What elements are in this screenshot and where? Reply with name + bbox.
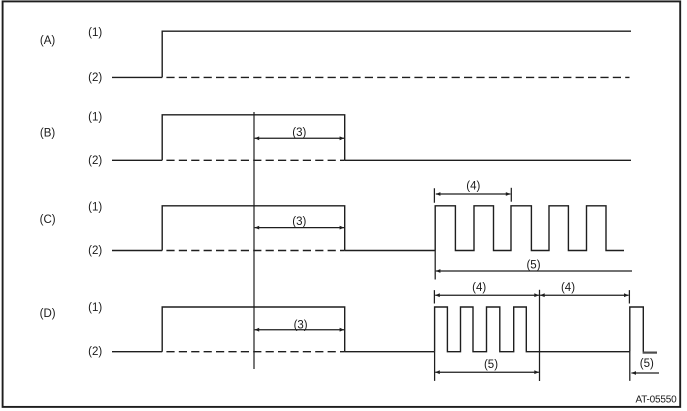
svg-text:(2): (2) bbox=[88, 346, 102, 358]
wire D pulse train bbox=[435, 307, 630, 352]
wire D dashed low reference bbox=[162, 351, 345, 353]
wire D baseline between pulse and train bbox=[345, 351, 435, 353]
svg-text:(B): (B) bbox=[40, 128, 56, 140]
dimension arrow (4) row C bbox=[436, 192, 511, 196]
wire B baseline low right bbox=[345, 159, 631, 161]
svg-text:(1): (1) bbox=[88, 27, 102, 39]
wire C baseline between pulse and train bbox=[345, 250, 436, 252]
dimension arrow (5) row D bbox=[435, 370, 539, 374]
dimension arrow (4) row D second bbox=[540, 293, 629, 297]
wire C pulse bbox=[162, 206, 345, 251]
wire A baseline low bbox=[112, 76, 162, 78]
svg-text:(4): (4) bbox=[472, 282, 486, 294]
dimension arrow (4) row D first bbox=[435, 293, 539, 297]
wire C dashed low reference bbox=[162, 250, 345, 252]
tick C train start extension bbox=[433, 188, 436, 279]
svg-text:(5): (5) bbox=[484, 359, 498, 371]
svg-text:(D): (D) bbox=[40, 308, 56, 320]
wire C baseline low left bbox=[112, 250, 162, 252]
svg-text:(1): (1) bbox=[88, 111, 102, 123]
svg-text:(4): (4) bbox=[561, 282, 575, 294]
wire B pulse bbox=[162, 115, 345, 161]
dimension arrow (5) right small bbox=[631, 371, 659, 375]
svg-text:(1): (1) bbox=[88, 201, 102, 213]
wire B dashed low reference bbox=[162, 159, 345, 161]
svg-text:(2): (2) bbox=[88, 155, 102, 167]
svg-text:(4): (4) bbox=[466, 180, 480, 192]
svg-text:(C): (C) bbox=[40, 214, 56, 226]
wire A rising edge and high level bbox=[162, 31, 631, 77]
tick D right pulse extension bbox=[628, 290, 630, 381]
wire B baseline low left bbox=[112, 159, 162, 161]
svg-text:AT-05550: AT-05550 bbox=[635, 395, 677, 406]
dimension arrow (3) row D bbox=[255, 328, 345, 332]
svg-text:(5): (5) bbox=[640, 358, 654, 370]
svg-text:(2): (2) bbox=[88, 245, 102, 257]
dimension arrow (3) row B bbox=[255, 136, 345, 140]
wire D stub after single pulse bbox=[643, 352, 657, 354]
dimension arrow (5) row C bbox=[436, 269, 632, 273]
dimension arrow (3) row C bbox=[255, 226, 345, 230]
svg-text:(1): (1) bbox=[88, 302, 102, 314]
svg-text:(A): (A) bbox=[40, 35, 56, 47]
wire D pulse bbox=[162, 307, 345, 352]
wire A dashed low reference bbox=[162, 76, 629, 78]
wire D single pulse right bbox=[630, 307, 644, 352]
tick D middle divider bbox=[539, 290, 541, 381]
svg-text:(3): (3) bbox=[294, 319, 308, 331]
svg-text:(3): (3) bbox=[292, 216, 306, 228]
svg-text:(2): (2) bbox=[88, 72, 102, 84]
svg-text:(3): (3) bbox=[292, 127, 306, 139]
wire C pulse train bbox=[435, 206, 624, 251]
tick D train start extension bbox=[433, 290, 435, 381]
wire D baseline low left bbox=[112, 351, 162, 353]
node reference vertical line bbox=[253, 112, 255, 369]
svg-text:(5): (5) bbox=[526, 260, 540, 272]
tick C (4) right end bbox=[510, 188, 512, 202]
